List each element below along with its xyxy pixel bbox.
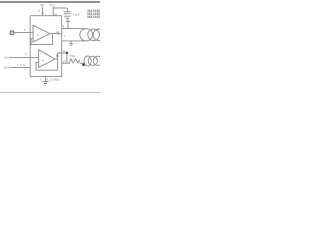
coax cable lower: [84, 56, 91, 66]
wire U1a feedback: [31, 34, 53, 45]
svg-text:13: 13: [37, 9, 40, 12]
IC U1 box: [30, 16, 62, 77]
wire input to U1b: [9, 56, 39, 60]
svg-text:IN: IN: [41, 3, 45, 7]
internal block U1b output: [56, 55, 58, 58]
junction dot: [66, 52, 69, 55]
terminal IN1: [10, 31, 13, 34]
ground coax upper bottom: [69, 41, 73, 44]
coax cable upper: [80, 29, 93, 41]
ground C1: [64, 14, 70, 18]
wire VCC: [51, 7, 55, 16]
border bottom: [0, 91, 100, 94]
resistor R1: [70, 59, 80, 63]
ground: [43, 80, 49, 84]
svg-text:MAX4452: MAX4452: [87, 15, 100, 19]
junction dot coax: [82, 64, 85, 67]
wire R1 to coax: [80, 61, 85, 65]
op-amp U1a: [33, 25, 50, 42]
arrowhead pin13: [41, 13, 43, 16]
wire U1a output: [50, 32, 62, 36]
internal block U1a output: [57, 32, 59, 35]
svg-text:7: 7: [64, 34, 66, 38]
svg-text:A: A: [42, 58, 44, 62]
wire NC2: [9, 66, 30, 70]
svg-text:0.1µF: 0.1µF: [73, 12, 80, 16]
op-amp U1b: [39, 50, 55, 68]
wire pin8 out: [62, 27, 86, 31]
wire U1b output internal: [55, 53, 62, 59]
wire pin12: [62, 51, 68, 55]
svg-text:NC: NC: [4, 66, 9, 70]
wire VCC to C1: [53, 6, 67, 10]
wire pin13: [41, 7, 45, 13]
wire pin7: [62, 39, 86, 43]
svg-text:6, 11 (GND): 6, 11 (GND): [47, 78, 60, 82]
svg-text:2: 2: [25, 52, 27, 56]
capacitor C1: [66, 8, 70, 12]
ground coax upper top (inverted): [66, 22, 70, 29]
wire gnd stub: [44, 77, 48, 82]
svg-text:CC: CC: [52, 5, 56, 8]
border top: [0, 1, 100, 3]
wire U1b feedback: [36, 59, 58, 70]
svg-text:NC: NC: [4, 56, 9, 60]
svg-text:5: 5: [24, 28, 26, 32]
wire pin10: [62, 61, 70, 65]
svg-text:A: A: [37, 33, 39, 37]
svg-text:1, 4, 9: 1, 4, 9: [17, 63, 25, 67]
wire input to U1a: [14, 31, 33, 35]
svg-text:3,: 3,: [40, 78, 42, 82]
wire jumper 12-10: [65, 53, 69, 63]
svg-text:75Ω: 75Ω: [70, 54, 76, 58]
svg-text:+: +: [40, 53, 42, 55]
